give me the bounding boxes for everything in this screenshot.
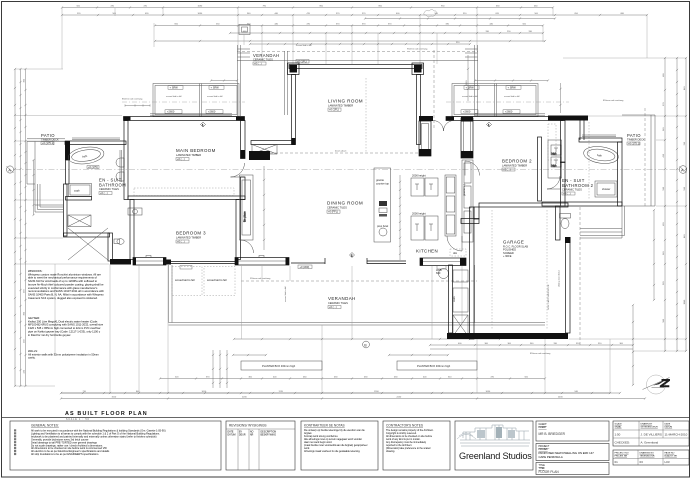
svg-text:BLADSY NR: BLADSY NR [665,455,678,458]
wall below shower [66,197,92,201]
dimension chain bottom right vertical [632,304,634,386]
svg-text:CERAMIC TILES: CERAMIC TILES [327,206,347,210]
svg-text:400: 400 [423,376,427,378]
roof overhang dash verticals beside living room [433,50,435,128]
dim verticals beside living room [466,55,469,101]
svg-text:440: 440 [275,13,279,15]
dimension chain bottom row 3b [60,392,611,394]
door arc main bedroom [231,163,245,177]
pier main bedroom top-left [124,117,131,121]
extension lines from top chains [62,8,647,69]
svg-text:520: 520 [175,376,179,378]
svg-text:VERANDAH: VERANDAH [328,296,356,301]
svg-text:470: 470 [144,5,148,7]
wall garage top [479,203,568,207]
svg-text:340: 340 [247,13,251,15]
svg-text:11-MARCH-2010: 11-MARCH-2010 [665,433,688,437]
marker B circle bottom [363,341,370,348]
wall en-suite bathroom top [65,141,126,145]
svg-text:DESCRIPTION: DESCRIPTION [261,432,277,434]
roof overhang dashed bottom [241,280,477,282]
dimension chain below garage [429,344,634,346]
svg-text:Casement SC4 system, dugged: Casement SC4 system, dugged also exposed… [28,296,98,300]
verandah bottom deck edge [169,323,546,326]
svg-text:1080: 1080 [684,299,686,304]
tick cluster left of planter [212,350,228,388]
svg-text:DINING ROOM: DINING ROOM [327,201,363,206]
svg-text:B: B [364,343,367,347]
main bedroom label [176,148,216,161]
svg-text:1:50: 1:50 [615,433,621,437]
svg-text:NO: NO [250,432,254,434]
svg-text:+ SRW: + SRW [508,86,517,90]
svg-text:KITCHEN: KITCHEN [416,249,438,254]
svg-text:DATUM: DATUM [228,434,236,437]
svg-text:SKAAL: SKAAL [615,426,623,429]
kontrakteer notes panel [301,421,378,470]
svg-text:300: 300 [249,376,253,378]
svg-text:BEDROOM 3: BEDROOM 3 [176,231,206,236]
svg-text:GETEKEN DEUR: GETEKEN DEUR [641,427,659,429]
svg-text:PAGE NO: PAGE NO [665,452,675,455]
svg-text:prep bowl: prep bowl [377,224,389,228]
kitchen units column right [453,270,468,336]
svg-text:Afmetings maak voorkeur bo die: Afmetings maak voorkeur bo die geskaalde… [304,450,361,453]
svg-text:470: 470 [307,23,311,25]
svg-text:+ 90FE: + 90FE [503,254,512,258]
svg-text:430: 430 [394,376,398,378]
roof overhang dashed line top [237,51,478,53]
svg-text:650: 650 [575,13,579,15]
wall living room left window [292,75,296,145]
living room label [328,99,363,112]
svg-text:PROJEK NR: PROJEK NR [615,456,628,458]
pier living room right bottom [419,116,433,156]
notes block walls [28,349,100,360]
section marker A right [679,166,687,174]
wall main bedroom top [124,117,245,121]
dimension chain right outer [685,57,687,352]
roof bay right labels [461,86,521,114]
svg-text:screed laid to fall: screed laid to fall [175,278,195,282]
svg-text:granite: granite [376,178,384,182]
svg-text:SCALE 1 : 50: SCALE 1 : 50 [66,418,90,421]
svg-text:+0 (175): +0 (175) [88,165,98,169]
svg-text:370: 370 [206,376,210,378]
wall segment bedroom3 to fireplace [166,260,235,270]
svg-text:850: 850 [320,5,324,7]
door arc into en-suite2 [547,176,560,189]
svg-text:TEKENING NR: TEKENING NR [640,456,655,458]
svg-text:PLANTER BOX 460mm high: PLANTER BOX 460mm high [262,364,296,368]
svg-text:1170: 1170 [279,391,284,393]
svg-text:310: 310 [456,42,460,44]
wall passage top horizontal [251,141,292,145]
svg-text:850mm roof overhang: 850mm roof overhang [122,98,143,101]
dining room label [327,201,363,214]
kitchen vertical dimension line [399,175,401,260]
svg-text:granite top: granite top [462,183,466,196]
wall ensuite2 left lower [561,162,566,206]
svg-text:+0 (...): +0 (...) [503,168,511,172]
svg-text:370: 370 [362,23,366,25]
svg-text:1630: 1630 [486,391,491,393]
svg-text:L03: L03 [665,460,670,464]
svg-text:PATIO: PATIO [41,133,55,138]
svg-text:cavity.: cavity. [28,356,36,360]
wall bedroom2 right [561,121,566,163]
svg-text:330: 330 [446,23,450,25]
pier living room top-left column [288,63,300,75]
window box kitchen south [420,258,466,269]
svg-text:600: 600 [396,13,400,15]
washing machine box WC lobby [68,215,91,227]
svg-text:drawing.: drawing. [386,450,395,453]
patio right boundary [622,115,655,206]
svg-text:MAIN BEDROOM: MAIN BEDROOM [176,148,216,153]
mini chain left wing overhang [125,104,150,106]
extension lines right side [563,58,686,351]
roof overhang dash-dot line across wings [122,101,569,103]
svg-text:440: 440 [23,369,25,373]
bath tub en-suite 1 [67,145,105,166]
wardrobe column bedroom2 [462,160,473,242]
dimension chain top row 1 [61,6,554,8]
wall en-suite2 bottom [542,202,622,206]
svg-text:screed laid to fall: screed laid to fall [462,95,478,98]
svg-text:LIVING ROOM: LIVING ROOM [328,99,363,104]
pier living room top-right column [412,63,424,75]
section marker A left [6,166,13,173]
notes block geyser [28,316,104,337]
svg-text:430: 430 [334,376,338,378]
svg-text:2000 height: 2000 height [412,212,426,216]
window sill bedroom2 top [475,114,545,115]
wardrobe bedroom2 right dashed [548,124,556,160]
svg-text:oven: oven [453,296,456,302]
extension lines bottom verandah [55,264,610,393]
svg-text:+0 (...): +0 (...) [177,157,185,161]
svg-text:+2600: +2600 [208,110,216,114]
door arc dining-kitchen right [465,161,480,176]
svg-text:SCALE: SCALE [615,423,623,426]
svg-text:520: 520 [77,13,81,15]
svg-text:DATE: DATE [665,423,671,426]
ticks row above right bay [474,79,549,81]
svg-text:DRAWING NO: DRAWING NO [640,452,655,455]
revisions panel [226,421,295,470]
planter box left [241,361,322,370]
svg-text:CAPE PENINSULA: CAPE PENINSULA [539,455,563,459]
pier living room left bottom [292,138,296,145]
dimension chain left outer [14,68,16,387]
svg-text:GENERAL NOTES:: GENERAL NOTES: [31,424,59,428]
svg-text:840: 840 [684,86,686,90]
double door arcs dining to bedroom2 [433,121,454,132]
svg-text:+ SRW: + SRW [466,86,475,90]
pier en-suite bathroom top-left vertical [65,141,70,160]
svg-text:360: 360 [23,311,25,315]
svg-text:790: 790 [263,5,267,7]
garage door dashed box [450,249,466,256]
svg-text:310: 310 [576,343,580,345]
svg-text:500: 500 [113,13,117,15]
garage label [503,240,528,259]
svg-text:2230: 2230 [242,396,247,398]
svg-text:1590: 1590 [374,391,379,393]
svg-text:1080: 1080 [198,5,203,7]
dimension chain bottom small left [232,354,267,356]
svg-text:370: 370 [388,23,392,25]
svg-text:500: 500 [525,376,529,378]
dimension chain dining west [263,166,265,250]
dimension chain bottom row 0 [233,338,501,340]
svg-text:460: 460 [534,5,538,7]
svg-text:300: 300 [508,343,512,345]
svg-text:360: 360 [485,343,489,345]
patio left deck steps [35,184,63,212]
svg-text:850mm roof overhang: 850mm roof overhang [530,352,551,355]
svg-text:counter top: counter top [376,182,390,186]
wall main bedroom right upper [241,121,246,159]
dimension chain bottom row 1 [159,377,546,379]
general notes panel [10,421,221,470]
svg-text:310: 310 [598,343,602,345]
svg-text:TIMBER DECK: TIMBER DECK [41,138,59,142]
bedroom 3 label [176,231,206,244]
dimension chain top row 2 [61,14,648,16]
living room ffl box [296,59,309,63]
svg-text:PATIO: PATIO [627,133,641,138]
svg-text:950: 950 [441,5,445,7]
svg-text:CERAMIC TILES: CERAMIC TILES [253,58,273,62]
svg-text:520: 520 [663,281,665,285]
dimension chain bottom small right [388,354,449,356]
extension lines left side [15,69,122,386]
svg-text:DEUR: DEUR [239,435,246,437]
dimension chain left inner [24,68,26,387]
svg-text:LAMINATED TIMBER: LAMINATED TIMBER [176,153,201,157]
svg-text:BATHROOM 2: BATHROOM 2 [562,183,594,188]
wall bedroom2 top band [446,117,563,121]
svg-text:460: 460 [303,376,307,378]
svg-text:2000 height: 2000 height [412,174,426,178]
ticks row above left bay [210,79,238,81]
svg-text:490: 490 [663,222,665,226]
svg-text:+0 (1FL): +0 (1FL) [329,108,339,112]
wall garage right lower [566,242,571,333]
svg-text:LAMINATED TIMBER: LAMINATED TIMBER [502,164,527,168]
en-suit bathroom 2 label [562,178,594,196]
screed dashed boxes bottom-left verandah [172,267,235,296]
patio left label [41,133,59,145]
svg-text:530: 530 [684,186,686,190]
window box bedroom3 bottom [133,256,166,266]
pier passage [249,151,270,160]
svg-text:850: 850 [379,5,383,7]
svg-text:600: 600 [436,271,441,275]
svg-text:950mm roof overhang: 950mm roof overhang [250,277,271,280]
svg-text:310: 310 [463,13,467,15]
roof bay left labels [165,86,224,114]
planter box right [397,361,477,370]
svg-text:1080: 1080 [198,13,203,15]
svg-text:AS BUILT FLOOR PLAN: AS BUILT FLOOR PLAN [65,411,148,417]
svg-text:420: 420 [663,153,665,157]
svg-text:+0 (...): +0 (...) [329,305,337,309]
dimension chain right mid [676,57,678,352]
door jamb ticks verandah opening [325,258,367,264]
wall garage left [470,207,475,339]
svg-text:+2600: +2600 [463,110,471,114]
verandah top left steps [238,49,251,57]
wall bedroom2 east inner [538,137,542,201]
svg-text:530: 530 [663,186,665,190]
svg-text:FLOOR PLAN: FLOOR PLAN [539,470,560,474]
svg-text:DRAWN BY: DRAWN BY [641,423,653,426]
svg-text:340: 340 [530,343,534,345]
greenland studios house sketch [457,425,530,446]
door number diamond left [201,122,206,127]
svg-text:1550: 1550 [112,396,117,398]
svg-text:370: 370 [336,13,340,15]
project number table [613,450,689,465]
project panel [536,444,609,461]
svg-text:d/w: d/w [453,251,457,255]
svg-text:NR: NR [250,435,254,437]
svg-text:screed laid to fall: screed laid to fall [207,95,223,98]
svg-text:330: 330 [529,31,533,33]
svg-text:430: 430 [364,376,368,378]
svg-text:+0 (...): +0 (...) [100,191,108,195]
pier bedroom2 entry left column [461,117,473,159]
dimension chain bottom row 3 [60,392,621,394]
dimension chain top row 2b [364,17,556,19]
svg-text:+0 (...): +0 (...) [563,192,571,196]
svg-text:560: 560 [663,318,665,322]
svg-text:440: 440 [275,23,279,25]
svg-text:760: 760 [684,141,686,145]
chimney block top [239,25,250,46]
svg-text:1050: 1050 [202,391,207,393]
wall thin segment verandah opening east [367,261,406,264]
cross bracing WC lobby floor [68,228,108,260]
window sill main bedroom west [120,150,122,182]
svg-text:+0 (...): +0 (...) [177,240,185,244]
kitchen lobby west wall [449,265,453,333]
svg-text:340: 340 [663,251,665,255]
svg-text:BESKRYWING: BESKRYWING [261,435,277,437]
wall WC lobby bottom horizontal [64,233,110,237]
pier garage right step [565,237,571,243]
patio left boundary lines [27,139,65,184]
patio right steps [580,206,625,238]
svg-text:850mm roof overhang: 850mm roof overhang [603,99,624,102]
svg-text:+2600: +2600 [505,110,513,114]
svg-text:LAMINATED TIMBER: LAMINATED TIMBER [176,236,201,240]
wall main bedroom left [124,121,128,200]
svg-text:DATUM: DATUM [665,426,673,429]
svg-text:430: 430 [23,339,25,343]
kitchen unit column mid [445,175,456,236]
svg-text:620: 620 [496,13,500,15]
window box dining south-west [235,256,289,266]
svg-text:470: 470 [307,13,311,15]
wall living room top window band [289,65,422,69]
window sill en-suite1 top [72,138,120,140]
svg-text:290: 290 [23,289,25,293]
svg-text:Die ontwerp op hierdie tekenin: Die ontwerp op hierdie tekeninge bly die… [304,429,365,432]
svg-text:sliding door above: sliding door above [558,269,561,287]
toilet WC left wing [114,239,124,245]
svg-text:330: 330 [554,343,558,345]
svg-text:MR B. BRIEDGER: MR B. BRIEDGER [539,432,566,436]
wall thin segment verandah opening west [291,263,325,269]
svg-text:400: 400 [273,376,277,378]
svg-text:440: 440 [490,23,494,25]
svg-text:430: 430 [145,13,149,15]
garage nook step wall [461,207,479,224]
dimension chain right partial [653,209,655,301]
kitchen cabinets lower pair [411,212,438,241]
svg-text:400: 400 [458,343,462,345]
svg-text:beam above: beam above [335,151,347,153]
svg-text:+ SRW: + SRW [211,86,220,90]
living room centre dashed line [365,78,367,152]
garage roof overhang dashed right [579,207,581,345]
svg-text:01: 01 [615,460,619,464]
svg-text:290: 290 [507,31,511,33]
dashed line inside en-suite2 [588,122,590,200]
window sill en-suite2 top [582,135,616,137]
svg-text:GARAGE: GARAGE [503,240,524,245]
verandah step edge beside living room [285,51,288,115]
svg-text:All strip foundations to be as: All strip foundations to be as per ENGIN… [31,453,99,456]
svg-text:KONTRAKTEER SE NOTAS: KONTRAKTEER SE NOTAS [304,424,345,428]
verandah top deck edge lines [237,60,478,62]
wall main bedroom right lower [241,177,246,200]
svg-text:in fitted for 1st dry hori: in fitted for 1st dry horizontle geyser. [28,333,71,337]
svg-text:550: 550 [216,23,220,25]
svg-text:940: 940 [575,391,579,393]
svg-text:BEDROOM 2: BEDROOM 2 [502,159,532,164]
verandah top side edges [238,45,478,116]
svg-text:370: 370 [362,13,366,15]
wall left wing lower-left vertical [64,184,68,236]
title panel [536,463,609,475]
svg-text:03: 03 [640,460,644,464]
svg-text:Greenland Studios: Greenland Studios [459,451,532,461]
svg-text:TIMBER DECK: TIMBER DECK [627,138,645,142]
svg-text:screed laid to fall: screed laid to fall [296,44,312,47]
svg-text:950mm roof overhang: 950mm roof overhang [407,48,428,51]
pier main bedroom right [241,150,246,159]
door number diamond right [487,122,492,127]
scale drawn table [613,421,689,446]
dim vertical right of bays [559,83,561,113]
wardrobe main bedroom dashed [134,188,234,196]
svg-text:high: high [552,164,557,168]
wall en-suite2 right vertical [618,142,623,206]
beam above dashed dining [270,152,419,154]
garage interior dashed lines [492,210,547,330]
svg-text:500: 500 [523,23,527,25]
toilet WC right lobby [560,214,571,229]
title block top separator line [2,417,690,419]
svg-text:(maat hierdie moet voorsienlik: (maat hierdie moet voorsienlik aan die A… [304,444,368,447]
svg-text:+2600: +2600 [167,110,175,114]
svg-text:BATHROOM: BATHROOM [99,183,126,188]
